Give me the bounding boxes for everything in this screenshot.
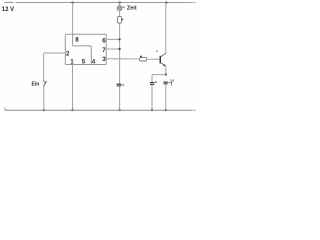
junction emitter node xyxy=(165,73,167,75)
svg-text:1: 1 xyxy=(70,58,74,65)
wire collector to rail xyxy=(165,2,167,53)
lamp designator tick xyxy=(123,7,125,8)
junction pin 7 wire at RC line xyxy=(118,48,120,50)
resistor R2 (base) xyxy=(140,57,147,61)
node C3 value mark (mu glyph) xyxy=(168,79,174,85)
wire R1 to pins 6/7 node xyxy=(119,23,121,84)
svg-text:4: 4 xyxy=(92,58,96,65)
lamp H1 Zeit xyxy=(117,6,122,11)
wire internal tie pin8 to pin4 xyxy=(73,34,92,64)
svg-text:Ein: Ein xyxy=(32,82,40,88)
wire lamp to resistor R1 xyxy=(119,11,121,17)
junction C1 at rail xyxy=(118,109,120,111)
wire emitter node to C2 branch xyxy=(152,75,166,82)
svg-text:Zeit: Zeit xyxy=(127,6,137,12)
junction rail to collector xyxy=(165,1,167,3)
wire pin 8 to rail xyxy=(72,2,74,34)
wire bottom ground rail xyxy=(5,109,196,111)
resistor R2 value tick xyxy=(140,56,142,58)
svg-text:6: 6 xyxy=(102,38,106,45)
capacitor C3 (emitter branch) xyxy=(163,82,167,83)
svg-text:7: 7 xyxy=(102,47,106,54)
junction C2 at rail xyxy=(151,109,153,111)
wire C3 to ground rail xyxy=(165,84,167,110)
junction switch at rail xyxy=(43,109,45,111)
svg-text:12 V: 12 V xyxy=(2,7,14,13)
resistor R1 (timing) xyxy=(118,17,122,23)
junction pin1 at rail xyxy=(71,109,73,111)
junction rail to pin 8 wire xyxy=(71,1,73,3)
wire top +12V rail xyxy=(16,2,197,4)
node ground rail left terminal tick xyxy=(4,108,6,111)
capacitor C2 plus mark xyxy=(155,81,157,82)
wire pin 1 to ground rail xyxy=(72,65,74,111)
wire pin 6 to RC node xyxy=(106,38,119,40)
node +12V terminal stub xyxy=(5,1,14,3)
transistor Q1 xyxy=(156,51,166,67)
wire rail to lamp xyxy=(119,2,121,6)
svg-text:3: 3 xyxy=(102,56,106,63)
switch S1 Ein (push button) xyxy=(43,81,46,87)
capacitor C1 plus mark xyxy=(122,84,125,87)
junction rail to lamp branch xyxy=(118,1,120,3)
junction pin 6 wire at RC line xyxy=(118,38,120,40)
wire pin 7 to RC node xyxy=(106,48,119,50)
capacitor C2 (electrolytic) xyxy=(150,82,154,83)
op-amp U1 555 body xyxy=(65,34,106,64)
wire rail fade right edge xyxy=(191,0,200,117)
svg-text:5: 5 xyxy=(82,58,86,65)
svg-text:8: 8 xyxy=(75,37,79,44)
svg-text:2: 2 xyxy=(66,50,70,57)
wire C2 to ground rail xyxy=(151,85,153,110)
wire pin 2 to switch xyxy=(44,53,66,81)
capacitor C1 (timing, electrolytic) xyxy=(117,84,122,85)
wire switch to ground rail xyxy=(43,87,45,111)
resistor R1 value tick xyxy=(121,19,123,21)
wire emitter down xyxy=(165,66,167,75)
wire C1 to ground rail xyxy=(119,87,121,111)
wire pin 3 to base resistor xyxy=(106,58,140,60)
wire R2 to base xyxy=(147,58,160,60)
junction C3 at rail xyxy=(165,109,167,111)
